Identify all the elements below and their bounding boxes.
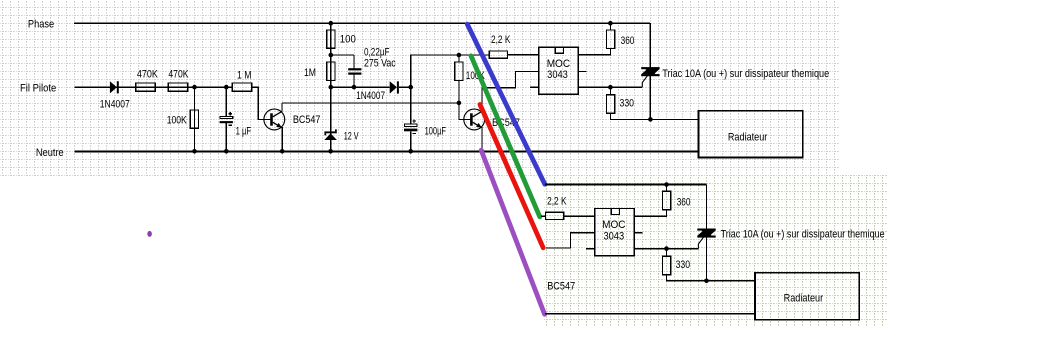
resistor R1 470K [136,83,156,91]
wire 100uF branch bottom [410,131,412,151]
resistor R2 470K [168,83,188,91]
wire 100uF branch top [410,87,412,124]
diode D1 1N4007 [110,81,117,93]
wire Fil Pilote bus [74,86,232,88]
node junction phase2/360 [664,182,669,187]
op-amp U1 MOC3043 box [539,47,578,94]
resistor R13 330 [663,256,671,274]
wire 330 bottom [610,113,698,119]
wire rail elbow [411,55,490,87]
svg-text:1N4007: 1N4007 [356,90,385,102]
node junction neutre/zener [328,149,333,154]
svg-text:Neutre: Neutre [36,147,64,159]
svg-text:2,2 K: 2,2 K [491,34,511,46]
diode D2 1N4007 [390,81,397,93]
svg-text:Radiateur: Radiateur [784,293,824,305]
node junction pilot/1uF [224,85,229,90]
op-amp U2 MOC3043 box [595,209,634,256]
wire U2 pin5 stub right [634,232,642,234]
svg-text:1N4007: 1N4007 [100,98,130,110]
svg-text:1 µF: 1 µF [236,126,252,138]
svg-text:1M: 1M [304,67,316,79]
transistor Q1 BC547 [264,109,285,130]
node junction 55rail/100K [457,53,462,58]
wire 1uF top lead [225,87,227,116]
svg-text:1 M: 1 M [237,70,252,82]
svg-text:3043: 3043 [603,230,624,242]
svg-text:360: 360 [621,35,635,47]
wire 1uF bottom lead [225,122,227,151]
wire link purple [481,150,544,314]
svg-text:2,2 K: 2,2 K [547,195,567,207]
wire phase dropper vertical [330,23,332,87]
capacitor C1 1uF [220,116,233,118]
svg-text:470K: 470K [168,68,189,80]
resistor R12 360 [663,191,671,209]
resistor R3 100K [190,110,198,128]
wire 330-2 top [666,249,668,257]
wire 12V rail [331,86,390,88]
svg-text:MOC: MOC [547,58,570,70]
node junction triac2/radiator [704,279,709,284]
resistor R5 100 [327,30,335,48]
wire Q2 emitter [481,127,483,151]
wire R11 to MOC2 [564,215,595,217]
wire U1 pin5 stub right [578,70,586,72]
resistor R4 1M [232,83,252,91]
resistor R6 1M [327,62,335,80]
node junction neutre/1uF [224,149,229,154]
wire triac1 gate [642,76,647,87]
capacitor C3 100uF [404,124,417,127]
node junction neutre/100uF [408,149,413,154]
radiator box 2 [755,273,859,320]
wire zener branch [330,87,332,151]
svg-text:360: 360 [677,196,691,208]
wire 0,22uF top lead [353,55,355,68]
zener diode Z1 12V [324,131,336,133]
node junction phase/360 [608,21,613,26]
svg-text:Triac 10A (ou +) sur dissipate: Triac 10A (ou +) sur dissipateur themiqu… [662,68,829,80]
wire link red [480,105,543,248]
wire 100K branch [194,87,196,151]
svg-text:Radiateur: Radiateur [728,131,768,143]
wire neutre bus 2 [545,313,755,315]
resistor R9 360 [606,30,614,48]
node junction rail/100uF [408,85,413,90]
wire U2 pin4 to 360 [634,210,666,217]
wire U1 pin6 gate line [578,86,642,88]
svg-text:Triac 10A (ou +) sur dissipate: Triac 10A (ou +) sur dissipateur themiqu… [721,228,885,240]
wire link green [471,56,540,217]
wire triac1 vertical [649,23,651,119]
svg-text:330: 330 [676,259,691,271]
wire triac2 gate [698,237,703,248]
wire red to U2 pin2 [546,233,595,248]
wire 100K2 top [458,55,460,62]
svg-text:Fil Pilote: Fil Pilote [20,82,56,94]
svg-text:BC547: BC547 [547,281,575,293]
node junction col1/base2 [457,101,462,106]
svg-text:BC547: BC547 [293,114,321,126]
wire Phase bus [74,22,650,24]
wire Q2 collector [482,71,539,111]
node junction triac/radiator [648,117,653,122]
svg-text:0,22µF: 0,22µF [364,46,390,58]
radiator box 1 [699,111,803,158]
wire 360-2 top [666,185,668,192]
wire U1 pin3 stub left [530,86,539,88]
node junction 100/1M [329,53,334,58]
node junction neutre/Q2e [480,149,485,154]
wire Q1 collector [281,103,283,112]
triac T1 [641,67,659,69]
wire 330 top [609,87,611,95]
wire triac2 vertical [706,185,708,281]
node junction phase/dropper [329,21,334,26]
node junction gate2/330 [664,246,669,251]
wire U2 pin3 stub left [586,248,595,250]
wire 55 rail to cap [331,54,354,56]
svg-text:Phase: Phase [28,19,54,31]
svg-text:MOC: MOC [602,219,625,231]
svg-text:100µF: 100µF [425,125,447,137]
resistor R10 330 [606,95,614,113]
node junction pilot/100K [192,85,197,90]
wire 330-2 bottom [667,275,755,281]
node junction gate/330 [608,85,613,90]
wire 100K2 bottom to Q2 base [459,80,470,119]
svg-text:12 V: 12 V [344,131,359,143]
node junction rail/1M [329,85,334,90]
resistor R11 2,2K [545,212,563,219]
wire 0,22uF bottom lead [353,75,355,88]
svg-text:3043: 3043 [547,69,568,81]
wire R8 to MOC1 [508,54,539,56]
wire link blue [467,24,545,184]
wire Neutre bus [74,151,698,153]
svg-text:275 Vac: 275 Vac [364,58,396,70]
wire 360 top [609,23,611,30]
svg-text:100: 100 [340,33,356,45]
wire U2 pin6 gate line [634,248,698,250]
wire phase bus 2 [545,184,706,186]
resistor R7 100K [455,62,463,80]
capacitor C2 0,22uF [348,68,361,70]
wire R4 to Q1 base [252,87,271,119]
svg-text:470K: 470K [137,68,159,80]
transistor Q2 BC547 [464,109,485,130]
node junction neutre/100K [192,149,197,154]
svg-text:100K: 100K [167,114,188,126]
node junction neutre/Q1e [280,149,285,154]
wire green to R11 [541,215,545,217]
wire U1 pin4 to 360 [578,48,610,55]
wire Q1 emitter [281,127,283,151]
resistor R8 2,2K [489,51,507,58]
svg-text:330: 330 [620,97,635,109]
triac T2 [697,229,715,231]
node junction rail/C2 [352,85,357,90]
stray purple dot [147,231,152,237]
